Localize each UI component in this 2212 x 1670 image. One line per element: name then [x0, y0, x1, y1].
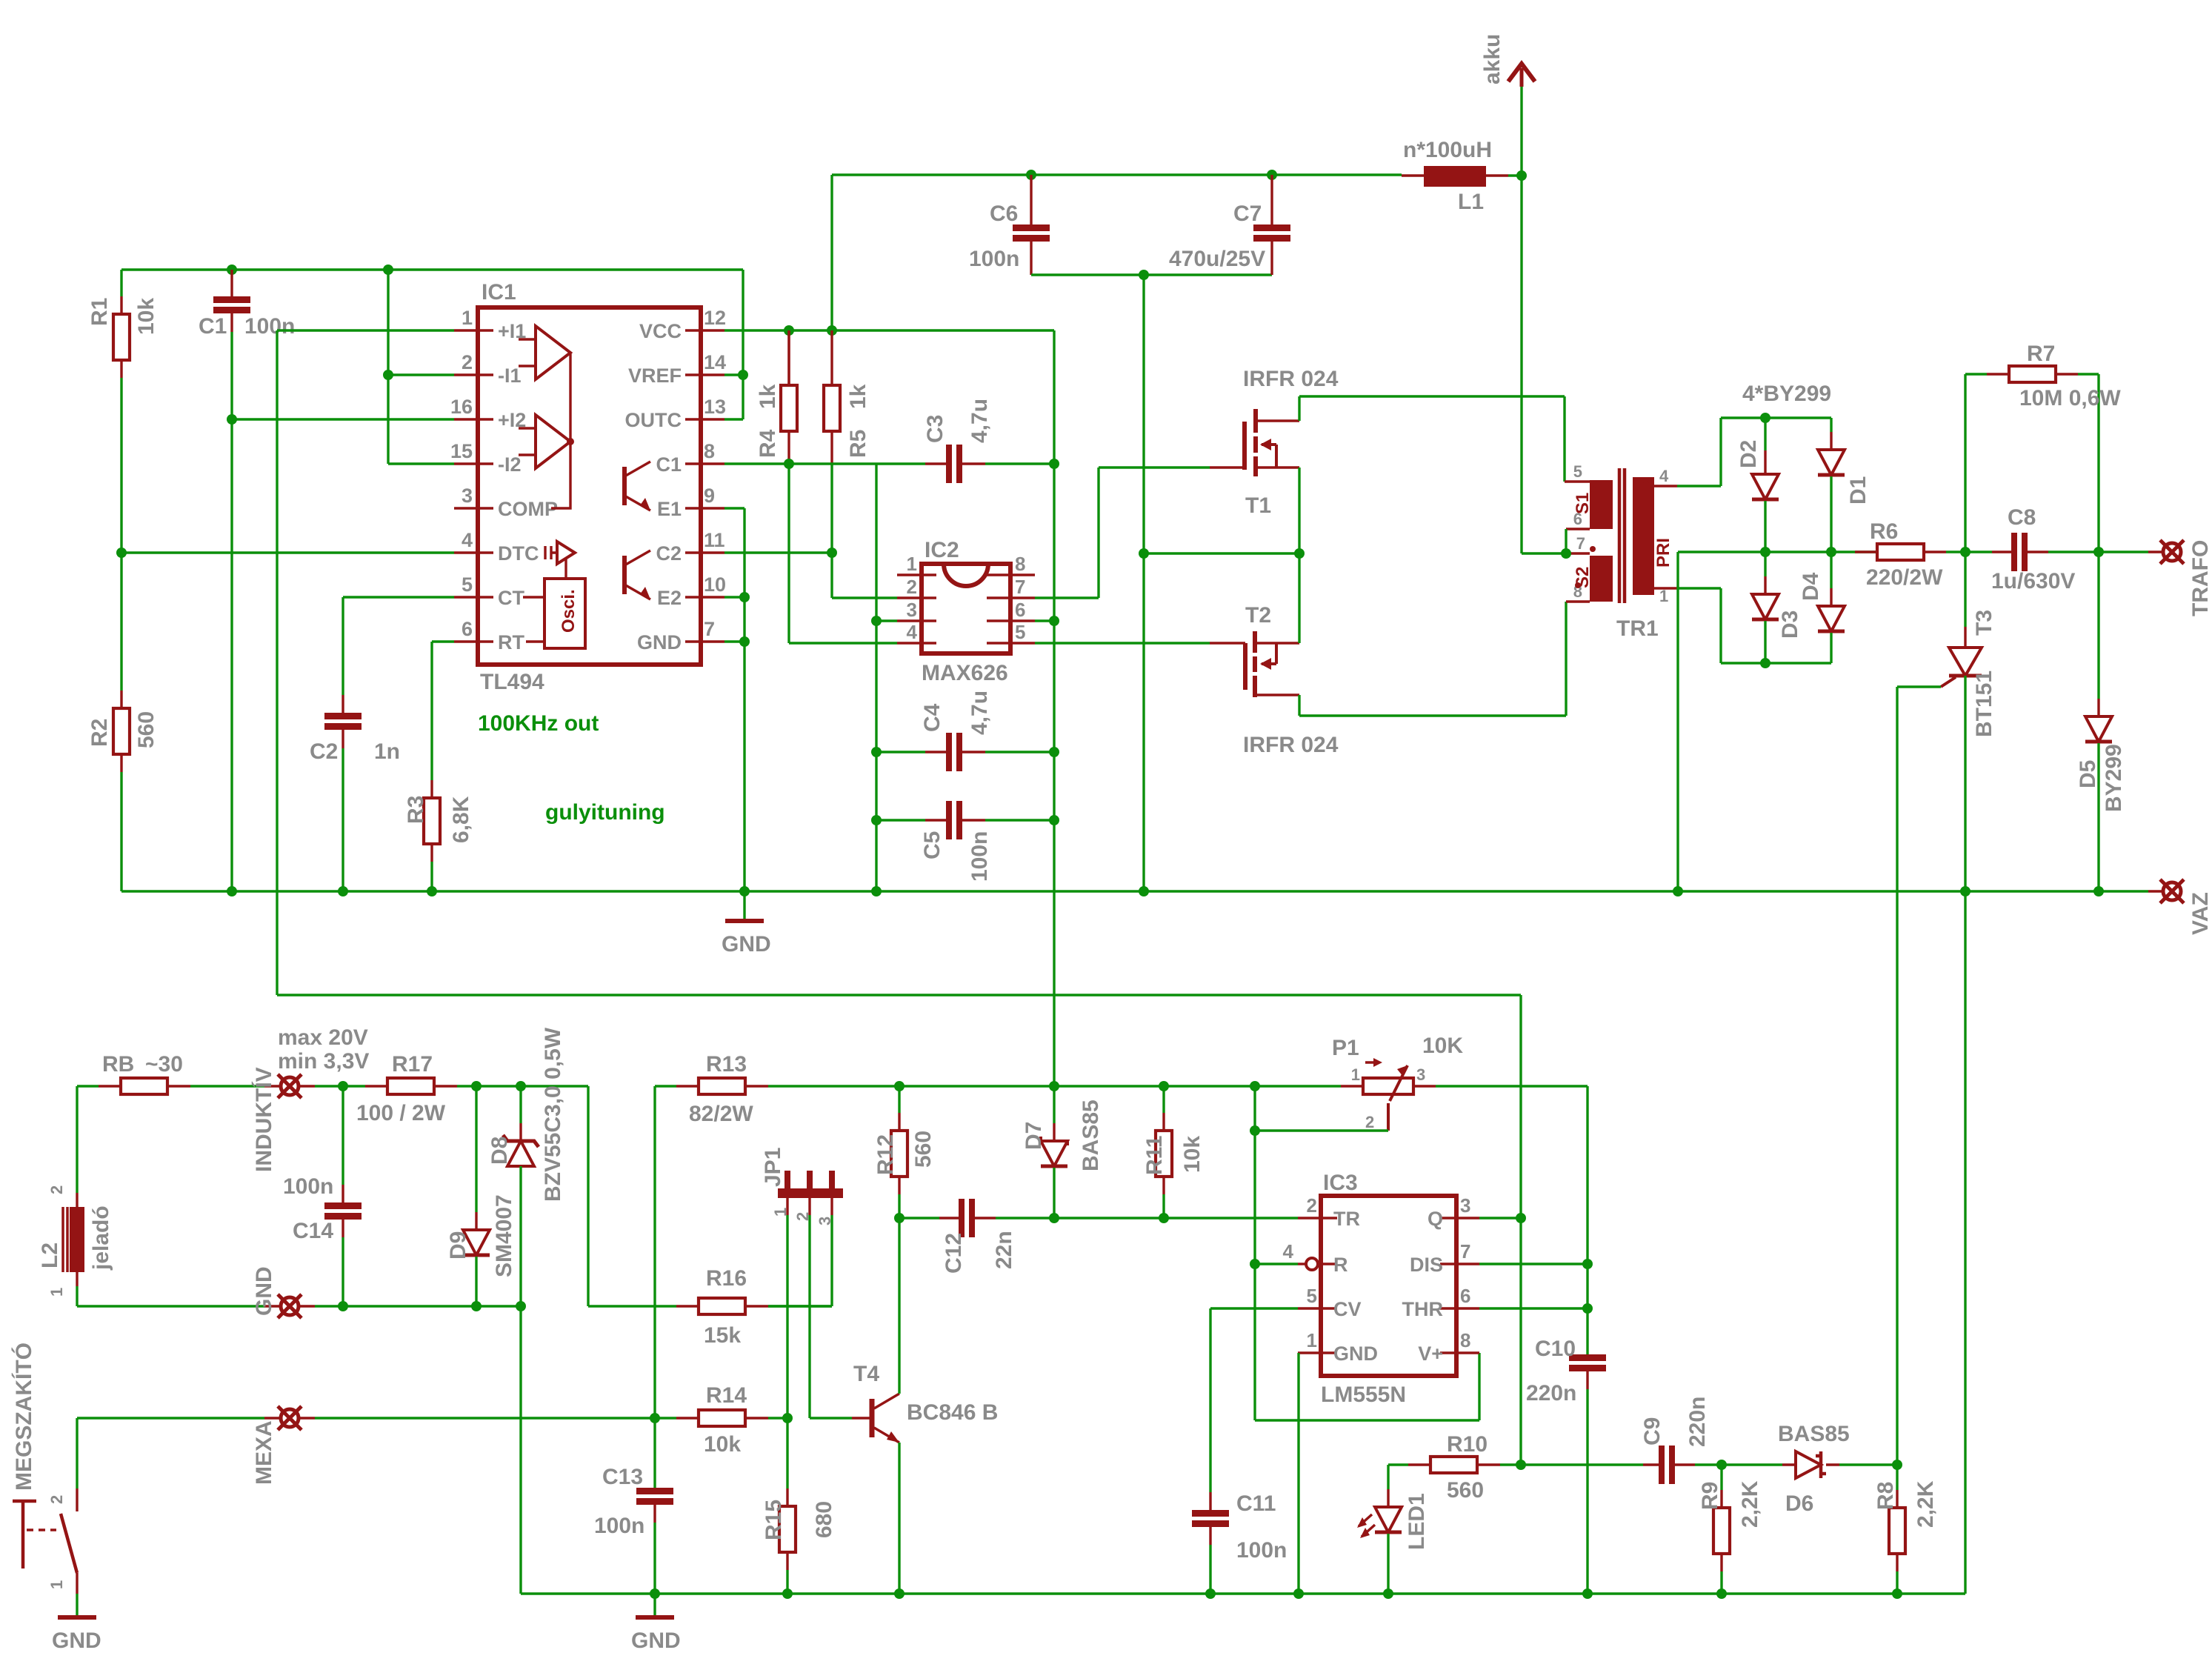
wire Q net [1479, 1217, 1521, 1219]
node IC2 pin3 [871, 616, 882, 626]
ground GND under IC1 [725, 919, 764, 923]
diode D7 BAS85 [1053, 1086, 1055, 1123]
IC1 pin 12 VCC [685, 329, 724, 331]
wire VREF to VREF/OUTC pins [724, 270, 743, 419]
svg-text:15: 15 [450, 440, 473, 462]
wire induktiv row [315, 1085, 365, 1087]
led LED1 [1387, 1465, 1389, 1489]
wire THR [1479, 1307, 1588, 1309]
node R14 right JP1 [782, 1413, 793, 1423]
resistor R11 [1162, 1086, 1165, 1113]
node D7 top [1049, 1081, 1059, 1091]
wire C1out pin8 row [724, 462, 925, 465]
node 2 [383, 370, 393, 380]
node 10 [739, 592, 750, 602]
svg-text:IC3: IC3 [1323, 1171, 1358, 1195]
svg-text:L2: L2 [38, 1242, 62, 1268]
wire VCC vertical to caps and D7 [1053, 464, 1055, 1086]
svg-text:1: 1 [47, 1580, 66, 1589]
IC1 pin 1 +I1 [454, 329, 493, 331]
node vaz1 [1673, 886, 1683, 896]
wire DIS [1479, 1263, 1588, 1265]
svg-text:1: 1 [1307, 1329, 1317, 1351]
node src rail [1139, 886, 1149, 896]
svg-text:Osci.: Osci. [559, 589, 579, 633]
wire pin16 +I2 [232, 418, 454, 420]
svg-text:7: 7 [1576, 534, 1585, 553]
wire E1 E2 GND chain [724, 508, 744, 919]
wire JP1 pin2 to T4 base [810, 1215, 852, 1418]
svg-text:LED1: LED1 [1405, 1493, 1429, 1550]
svg-text:5: 5 [1015, 621, 1025, 643]
svg-text:RT: RT [498, 631, 524, 653]
svg-text:BT151: BT151 [1972, 671, 1996, 737]
svg-text:TR1: TR1 [1616, 616, 1659, 641]
svg-text:560: 560 [1447, 1478, 1484, 1503]
wire -I1/-I2 tie [388, 270, 454, 464]
svg-text:Q: Q [1428, 1208, 1443, 1230]
TR1 pin 5 [1565, 480, 1590, 482]
svg-text:BC846 B: BC846 B [907, 1400, 998, 1425]
svg-text:R10: R10 [1447, 1432, 1488, 1457]
svg-text:9: 9 [704, 485, 715, 507]
chip IC3 LM555N box [1321, 1196, 1456, 1376]
node VREF-B [383, 265, 393, 275]
wire T2 drain up [1298, 553, 1300, 643]
wire sources to gnd vertical [1142, 275, 1145, 891]
svg-text:100n: 100n [967, 831, 992, 882]
jumper JP1 [778, 1188, 843, 1198]
node C14 bot [338, 1301, 348, 1311]
svg-text:220n: 220n [1526, 1381, 1576, 1405]
node rail r15 [782, 1589, 793, 1599]
svg-text:6,8K: 6,8K [449, 796, 473, 843]
svg-text:T1: T1 [1245, 493, 1271, 518]
svg-text:R2: R2 [87, 719, 112, 747]
wire RT to R3 [432, 642, 454, 780]
svg-text:13: 13 [704, 396, 726, 418]
svg-text:10k: 10k [134, 298, 159, 335]
svg-text:8: 8 [704, 440, 715, 462]
node DIS [1582, 1259, 1593, 1269]
svg-text:E2: E2 [657, 587, 682, 609]
wire bridge bottom rail [1721, 662, 1831, 664]
wire VAZ rail [121, 890, 2148, 892]
node wiper [1250, 1125, 1260, 1136]
svg-text:C6: C6 [990, 202, 1018, 226]
node vaz5 [227, 886, 237, 896]
svg-text:D8: D8 [487, 1137, 512, 1165]
svg-text:BAS85: BAS85 [1079, 1100, 1103, 1171]
svg-text:VAZ: VAZ [2188, 892, 2212, 935]
node D6 right [1892, 1460, 1902, 1470]
svg-text:100 / 2W: 100 / 2W [356, 1101, 446, 1125]
svg-text:22n: 22n [992, 1231, 1016, 1269]
svg-text:R8: R8 [1873, 1482, 1898, 1510]
TR1 pin 7 [1566, 552, 1590, 554]
node L1 right [1516, 170, 1527, 181]
svg-text:R4: R4 [756, 429, 780, 458]
pad MEXA [77, 1417, 264, 1419]
IC2 pin 4 [897, 642, 936, 644]
IC1 pin 8 C1 [685, 462, 724, 465]
capacitor C8 [1965, 550, 1992, 553]
IC1 pin 4 DTC [454, 551, 493, 553]
svg-text:C5: C5 [920, 831, 945, 859]
resistor R14 [676, 1417, 699, 1419]
node C14 top [338, 1081, 348, 1091]
svg-text:JP1: JP1 [761, 1148, 785, 1187]
node D9 bot [471, 1301, 482, 1311]
svg-text:LM555N: LM555N [1321, 1383, 1406, 1407]
svg-text:OUTC: OUTC [625, 409, 682, 431]
svg-text:10: 10 [704, 573, 726, 596]
svg-text:D6: D6 [1785, 1491, 1813, 1516]
svg-text:R9: R9 [1698, 1482, 1722, 1510]
wire VCC pin12 row [724, 330, 1054, 464]
svg-text:7: 7 [704, 618, 715, 640]
svg-text:C9: C9 [1640, 1417, 1665, 1446]
svg-text:VREF: VREF [628, 365, 682, 387]
wire IC2 pin5 to T2 gate [1035, 642, 1210, 644]
node R4 bottom [784, 459, 794, 469]
node 16 [227, 414, 237, 425]
node src gnd [1139, 548, 1149, 559]
svg-text:D2: D2 [1736, 440, 1761, 468]
svg-text:10K: 10K [1422, 1034, 1463, 1058]
ground GND mid [653, 1594, 656, 1615]
wire pin8 branch down to IC2 pin3 [875, 464, 877, 891]
svg-text:8: 8 [1460, 1329, 1470, 1351]
svg-text:IC1: IC1 [482, 280, 516, 305]
capacitor C7 [1270, 175, 1273, 224]
svg-text:MAX626: MAX626 [922, 661, 1008, 685]
svg-text:82/2W: 82/2W [689, 1102, 753, 1126]
wire R13 left down [655, 1086, 676, 1488]
svg-text:R1: R1 [87, 298, 112, 326]
svg-text:DIS: DIS [1410, 1254, 1443, 1276]
IC2 pin 7 [987, 596, 1035, 599]
resistor R4 [787, 330, 790, 385]
node R5 bottom [827, 548, 837, 558]
svg-text:R7: R7 [2027, 342, 2055, 366]
chip IC2 MAX626 box [922, 564, 1010, 653]
IC2 pin 8 [987, 573, 1035, 576]
svg-text:C7: C7 [1233, 202, 1262, 226]
resistor R9 [1720, 1465, 1722, 1490]
node Q [1516, 1213, 1526, 1223]
node rail c11 [1205, 1589, 1216, 1599]
node vaz4 [739, 886, 750, 896]
wire feedback down to Q [1519, 995, 1522, 1218]
node R6 right [1960, 547, 1971, 557]
diode D6 BAS85 [1722, 1463, 1782, 1466]
IC1 pin 5 CT [454, 596, 493, 598]
node C9 right [1716, 1460, 1727, 1470]
diode D5 BY299 [2097, 552, 2099, 699]
svg-text:THR: THR [1402, 1298, 1444, 1320]
svg-text:2,2K: 2,2K [1738, 1480, 1762, 1528]
svg-text:-I2: -I2 [498, 453, 522, 476]
svg-text:1n: 1n [374, 739, 400, 764]
svg-text:2: 2 [907, 576, 917, 598]
svg-text:-I1: -I1 [498, 365, 522, 387]
diode D2 [1764, 418, 1766, 450]
transistor T2 IRFR024 [1210, 642, 1245, 644]
node vaz2 [1960, 886, 1971, 896]
IC1 error amplifier 2 [536, 415, 570, 468]
wire THR vertical [1586, 1086, 1588, 1354]
node pin8 rail gnd [871, 886, 882, 896]
resistor R12 [898, 1086, 900, 1113]
resistor R7 [1965, 374, 1987, 552]
svg-text:D1: D1 [1846, 476, 1870, 505]
wire R pin4 link [1255, 1263, 1298, 1265]
node D8 bot [516, 1301, 526, 1311]
diode D3 [1764, 552, 1766, 576]
svg-text:3: 3 [1460, 1194, 1470, 1217]
node D2 bottom [1760, 547, 1770, 557]
resistor R3 [430, 780, 433, 798]
IC1 pin 15 -I2 [454, 462, 493, 465]
wire pin8 to IC2 pin4 [789, 464, 897, 643]
svg-text:C11: C11 [1236, 1491, 1276, 1516]
svg-text:2,2K: 2,2K [1913, 1480, 1938, 1528]
IC2 pin 1 [897, 573, 936, 576]
node C4 left [871, 747, 882, 757]
svg-text:MEGSZAKÍTÓ: MEGSZAKÍTÓ [11, 1343, 36, 1491]
svg-text:470u/25V: 470u/25V [1169, 247, 1265, 271]
IC1 pin 11 C2 [685, 551, 724, 553]
node vaz7 [427, 886, 437, 896]
capacitor C2 [342, 695, 344, 713]
svg-text:14: 14 [704, 351, 726, 373]
svg-text:P1: P1 [1332, 1036, 1359, 1060]
svg-text:DTC: DTC [498, 542, 539, 565]
capacitor C9 [1521, 1463, 1643, 1466]
wire T2 source to TR1 pin8 [1299, 602, 1566, 716]
IC2 pin 2 [897, 596, 936, 599]
wire mexa row [315, 1417, 676, 1419]
svg-text:5: 5 [1307, 1285, 1317, 1307]
svg-text:PRI: PRI [1653, 538, 1673, 568]
svg-text:100n: 100n [244, 314, 295, 339]
svg-text:2: 2 [462, 351, 473, 373]
wire JP1 pin3 to R16 [768, 1215, 832, 1306]
svg-text:CV: CV [1333, 1298, 1362, 1320]
svg-text:3: 3 [1416, 1065, 1425, 1084]
wire gnd row [315, 1305, 521, 1307]
capacitor C12 [899, 1217, 939, 1219]
ground GND switch [58, 1615, 96, 1620]
transistor T1 IRFR024 [1210, 466, 1245, 468]
diode D8 zener BZV55 [519, 1086, 522, 1123]
wire GND pin down [1297, 1353, 1299, 1594]
wire mid rail to VAZ [1676, 552, 1679, 891]
IC1 pin 14 VREF [685, 373, 724, 376]
svg-text:TR: TR [1333, 1208, 1360, 1230]
svg-text:D9: D9 [446, 1231, 470, 1260]
node x1694 top [1250, 1081, 1260, 1091]
op-amp IC1 TL494 box [478, 307, 701, 665]
wire feedback +I1 long [277, 330, 1521, 995]
node D7 bottom [1049, 1213, 1059, 1223]
node D9 top [471, 1081, 482, 1091]
svg-text:IRFR 024: IRFR 024 [1243, 367, 1339, 391]
TR1 pin 1 [1654, 587, 1677, 589]
wire bridge mid rail [1678, 550, 1877, 553]
svg-text:D3: D3 [1778, 611, 1802, 639]
pad TRAFO [2163, 543, 2181, 561]
svg-text:R17: R17 [392, 1052, 433, 1077]
node rail r8 [1892, 1589, 1902, 1599]
wire T4 collector [898, 1218, 900, 1394]
node rail t4e [894, 1589, 905, 1599]
wire VREF rail [121, 268, 743, 270]
node R5 top [827, 325, 837, 336]
node R11 bottom [1159, 1213, 1169, 1223]
resistor RB [77, 1085, 99, 1087]
pad VAZ [2163, 882, 2181, 900]
svg-text:10k: 10k [704, 1432, 741, 1457]
node C3 right [1049, 459, 1059, 469]
svg-text:2: 2 [1365, 1113, 1374, 1131]
node R10 right [1516, 1460, 1526, 1470]
node R12 top [894, 1081, 905, 1091]
node C4 right [1049, 747, 1059, 757]
svg-text:R12: R12 [873, 1134, 898, 1175]
node rail gnd555 [1293, 1589, 1304, 1599]
svg-text:R6: R6 [1870, 519, 1898, 544]
svg-text:4: 4 [462, 529, 473, 551]
wire T1 drain to TR1 pin5 [1299, 396, 1565, 482]
svg-text:C14: C14 [293, 1219, 333, 1243]
svg-text:1k: 1k [846, 384, 870, 409]
capacitor C13 [653, 1488, 656, 1488]
node THR [1582, 1303, 1593, 1314]
IC1 pin 9 E1 [685, 507, 724, 509]
wire T1 source down [1298, 468, 1300, 553]
node gnd drop [1139, 270, 1149, 280]
svg-text:gulyituning: gulyituning [545, 800, 665, 825]
IC1 output transistor 2 [622, 556, 627, 594]
potentiometer P1 10K [1341, 1085, 1363, 1087]
svg-text:7: 7 [1460, 1240, 1470, 1263]
IC1 pin 3 COMP [454, 507, 493, 509]
svg-text:1: 1 [1351, 1065, 1360, 1084]
svg-text:T3: T3 [1972, 610, 1996, 636]
svg-text:D7: D7 [1022, 1122, 1046, 1150]
wire CT to C2 [343, 597, 454, 695]
IC1 pin 13 OUTC [685, 418, 724, 420]
capacitor C6 [1030, 175, 1032, 224]
svg-text:IRFR 024: IRFR 024 [1243, 733, 1339, 757]
svg-text:220n: 220n [1685, 1397, 1710, 1447]
svg-text:R: R [1333, 1254, 1348, 1276]
svg-text:R14: R14 [706, 1383, 747, 1408]
svg-text:11: 11 [704, 529, 725, 551]
svg-text:8: 8 [1015, 553, 1025, 575]
node R reset [1250, 1259, 1260, 1269]
svg-text:C12: C12 [942, 1233, 966, 1274]
svg-text:T4: T4 [853, 1362, 879, 1386]
node vaz6 [338, 886, 348, 896]
transformer TR1 winding PRI [1633, 477, 1654, 595]
resistor R13 [676, 1085, 699, 1087]
svg-text:C4: C4 [920, 703, 945, 732]
svg-text:E1: E1 [657, 498, 682, 520]
inductor L2 jelado [76, 1086, 78, 1193]
IC3 pin 5 CV [1298, 1307, 1337, 1309]
node rail c10 [1582, 1589, 1593, 1599]
svg-text:4: 4 [1659, 467, 1669, 485]
svg-text:1: 1 [47, 1288, 66, 1297]
svg-text:RB: RB [102, 1052, 134, 1077]
pad INDUKTIV [264, 1085, 280, 1087]
svg-text:SM4007: SM4007 [492, 1194, 516, 1277]
svg-text:n*100uH: n*100uH [1403, 138, 1492, 162]
node rail r9 [1716, 1589, 1727, 1599]
svg-text:4: 4 [907, 621, 918, 643]
TR1 pin 6 [1566, 528, 1590, 530]
svg-text:15k: 15k [704, 1323, 741, 1348]
svg-text:C3: C3 [923, 415, 947, 443]
node D8 top [516, 1081, 526, 1091]
svg-text:6: 6 [1573, 510, 1582, 528]
wire VCC top rail [832, 175, 1402, 330]
svg-text:C2: C2 [656, 542, 682, 565]
wire P1 wiper row [1255, 1129, 1388, 1131]
capacitor C1 [230, 270, 233, 296]
capacitor C3 [925, 462, 946, 465]
IC1 comp wire [551, 353, 570, 508]
transformer TR1 core [1619, 468, 1625, 603]
wire to IC2 pin2 [832, 553, 897, 598]
node C8 right [2093, 547, 2104, 557]
svg-text:GND: GND [52, 1629, 101, 1653]
capacitor C10 [1569, 1354, 1606, 1361]
IC2 pin 6 [987, 619, 1035, 622]
svg-text:VCC: VCC [639, 320, 682, 342]
supply arrow akku [1520, 87, 1522, 176]
node DTC [116, 548, 127, 558]
svg-text:3: 3 [907, 599, 917, 621]
IC1 pin 6 RT [454, 640, 493, 642]
IC3 pin 8 V+ [1440, 1351, 1479, 1354]
wire IC2 pin3 link [876, 619, 897, 622]
node D1 bottom [1826, 547, 1836, 557]
IC3 pin 6 THR [1440, 1307, 1479, 1309]
IC3 pin 7 DIS [1440, 1263, 1479, 1265]
resistor R15 [786, 1418, 788, 1488]
resistor R16 [676, 1305, 699, 1307]
node IC2 pin6 [1049, 616, 1059, 626]
svg-text:GND: GND [722, 932, 771, 957]
node D2 top [1760, 413, 1770, 423]
node C5 right [1049, 815, 1059, 825]
svg-text:min 3,3V: min 3,3V [278, 1049, 369, 1074]
IC1 error amplifier 1 [536, 326, 570, 379]
diode D1 [1830, 418, 1832, 432]
wire C2out pin11 row [724, 551, 832, 553]
resistor R6 [1855, 550, 1877, 553]
svg-text:max 20V: max 20V [278, 1025, 368, 1050]
svg-text:C1: C1 [656, 453, 682, 476]
svg-text:1: 1 [462, 307, 473, 329]
svg-text:D4: D4 [1799, 572, 1823, 601]
node vaz3 [2093, 886, 2104, 896]
svg-text:4,7u: 4,7u [967, 691, 992, 735]
